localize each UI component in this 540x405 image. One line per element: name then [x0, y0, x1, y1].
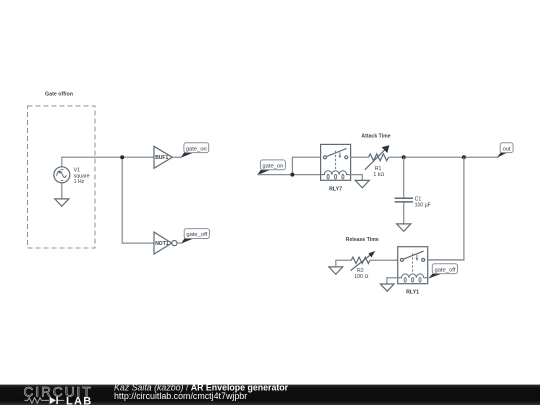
net flag out	[497, 143, 513, 158]
svg-text:gate_off: gate_off	[186, 232, 207, 238]
svg-text:RLY7: RLY7	[329, 187, 342, 193]
svg-text:gate_off: gate_off	[434, 267, 455, 273]
svg-text:100 Ω: 100 Ω	[354, 274, 368, 280]
net flag gate_off (top)	[181, 229, 209, 244]
svg-text:LAB: LAB	[66, 395, 93, 405]
node junction release	[462, 155, 466, 159]
svg-text:gate_on: gate_on	[186, 146, 207, 152]
wire gate_on to RLY7 coil	[257, 174, 320, 176]
wire RLY1 switch to out node wire	[428, 259, 464, 261]
svg-text:Gate off/on: Gate off/on	[45, 91, 73, 97]
svg-text:100 µF: 100 µF	[415, 203, 431, 209]
ground G5	[380, 284, 394, 291]
svg-text:gate_on: gate_on	[262, 164, 283, 170]
svg-text:http://circuitlab.com/cmctj4t7: http://circuitlab.com/cmctj4t7wjpbr	[114, 391, 247, 401]
voltage source V1	[54, 167, 70, 183]
ground G1	[55, 199, 69, 206]
svg-text:R1: R1	[375, 166, 382, 172]
wire node down to NOT1	[122, 157, 154, 243]
inverter NOT1	[154, 232, 177, 254]
wire BUF1 out	[172, 156, 181, 158]
svg-text:R2: R2	[357, 268, 364, 274]
svg-text:C1: C1	[415, 197, 422, 203]
net flag gate_on (attack section)	[257, 160, 285, 175]
wire V1 bottom to ground	[61, 183, 63, 199]
svg-text:NOT1: NOT1	[155, 241, 169, 247]
wire V1 top to node	[62, 157, 154, 167]
capacitor C1	[403, 157, 405, 197]
svg-text:BUF1: BUF1	[155, 155, 168, 161]
wire R1 to out	[389, 156, 499, 158]
relay RLY1	[398, 247, 428, 284]
svg-text:out: out	[503, 146, 511, 152]
rheostat R2	[351, 251, 376, 271]
wire G4 to R2	[336, 260, 352, 267]
wire NOT1 out	[177, 242, 181, 244]
footer bar	[0, 385, 540, 405]
logo resistor-diode squiggle	[25, 398, 49, 404]
svg-text:1 kΩ: 1 kΩ	[373, 172, 384, 178]
dashed selection box "Gate off/on"	[28, 106, 96, 248]
buffer BUF1	[154, 146, 172, 168]
wire R2 to RLY1	[370, 259, 398, 261]
wire RLY1 coil to ground	[387, 278, 398, 284]
ground G4	[329, 267, 343, 274]
svg-text:Release Time: Release Time	[346, 237, 379, 243]
svg-text:1 Hz: 1 Hz	[74, 179, 85, 185]
node junction C1	[402, 155, 406, 159]
net flag gate_off (release section)	[428, 264, 457, 279]
ground G2	[355, 180, 369, 187]
value label V1 square 1 Hz	[74, 167, 90, 185]
ground G3	[397, 224, 411, 231]
wire out node down to RLY1	[428, 157, 464, 260]
wire RLY7 switch to R1	[351, 156, 369, 158]
net flag gate_on (top)	[181, 143, 209, 158]
wire RLY7 coil to ground	[351, 175, 363, 181]
node junction	[290, 173, 294, 177]
relay RLY7	[321, 144, 351, 180]
svg-text:RLY1: RLY1	[406, 290, 419, 296]
node junction	[120, 155, 124, 159]
wire node up to RLY7 switch	[292, 157, 320, 174]
svg-text:Attack Time: Attack Time	[361, 134, 390, 140]
rheostat R1	[365, 145, 390, 170]
